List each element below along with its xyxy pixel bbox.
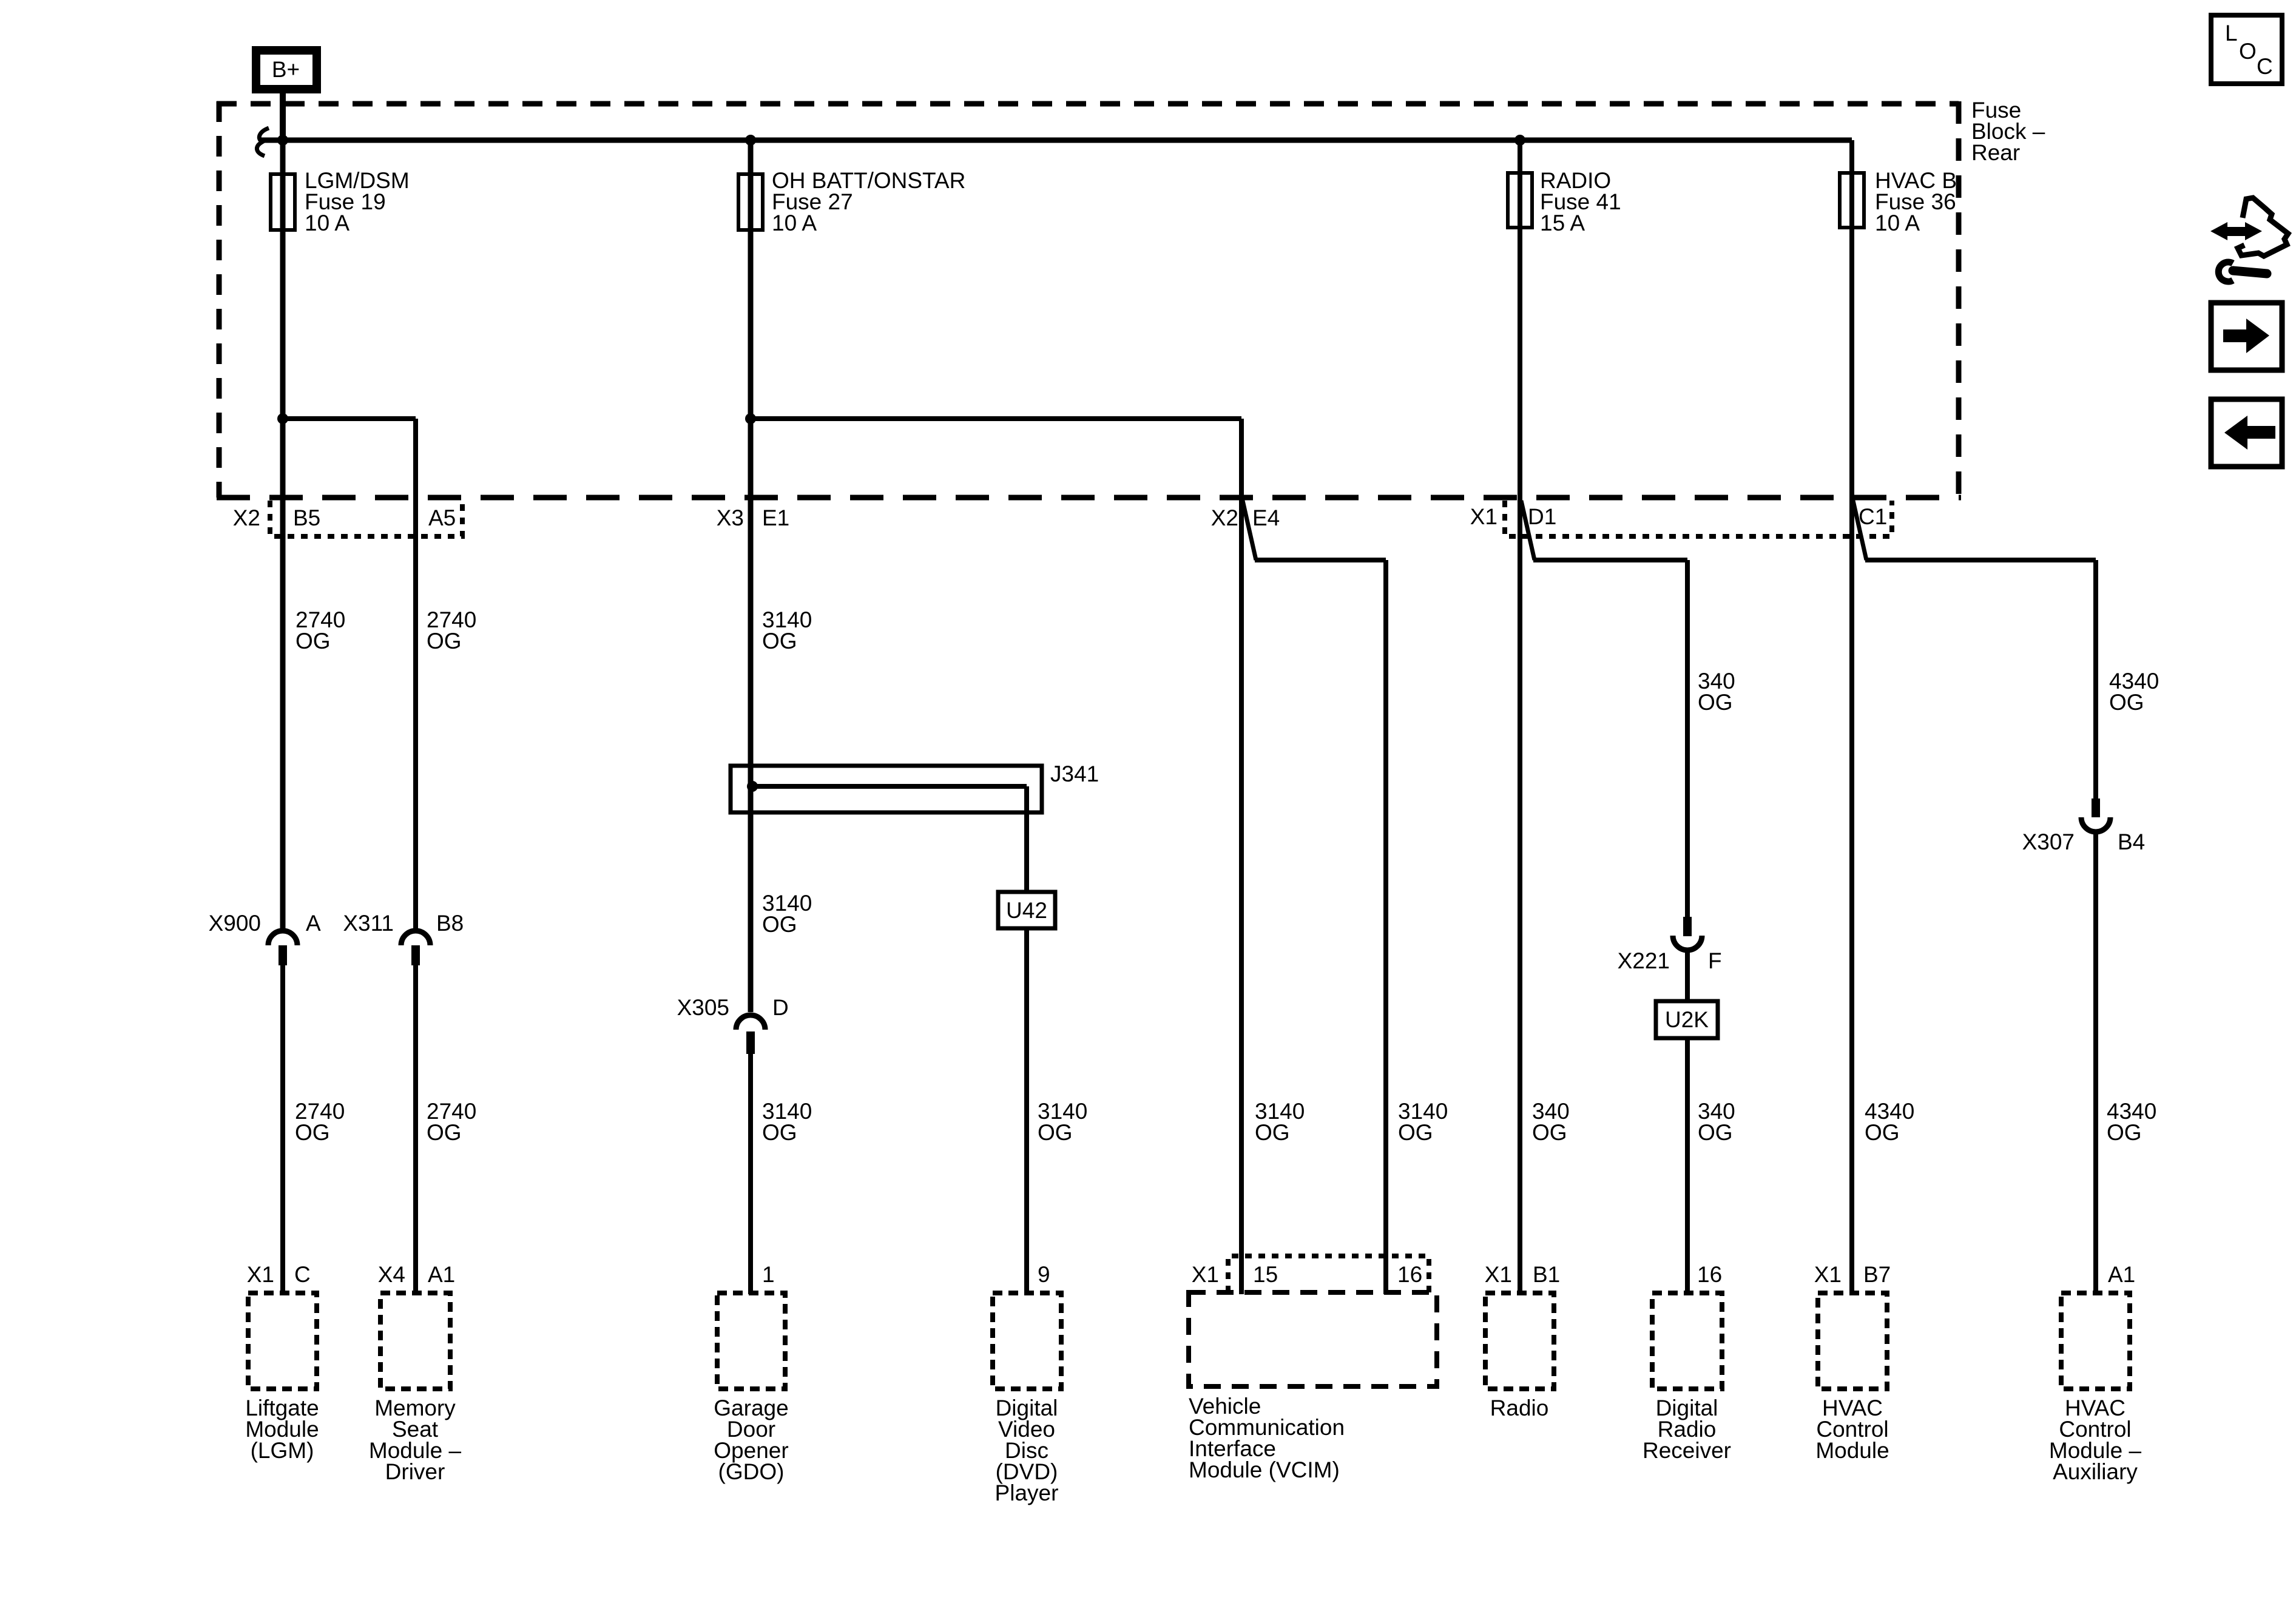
svg-text:B+: B+ <box>272 57 300 82</box>
fuse 41 RADIO <box>1508 173 1532 228</box>
connector X305 pin D <box>736 1015 765 1054</box>
svg-text:X2: X2 <box>1211 505 1238 530</box>
wire column6 hvac <box>1849 140 1854 1294</box>
wire label 340 OG drr lower <box>1698 1099 1735 1145</box>
wire label 3140 OG vcim15 <box>1255 1099 1305 1145</box>
svg-text:C: C <box>294 1262 311 1287</box>
svg-text:OG: OG <box>1532 1120 1567 1145</box>
wire C1 split slant <box>1853 501 1866 560</box>
wire column HVACaux upper <box>2093 560 2098 800</box>
VCIM pin dotted box <box>1228 1256 1429 1292</box>
splice J341 <box>731 766 1042 892</box>
svg-text:E1: E1 <box>762 505 789 530</box>
svg-text:X2: X2 <box>233 505 260 530</box>
B+ power symbol <box>252 46 321 93</box>
wire label 2740 OG c2 lower <box>427 1099 476 1145</box>
svg-text:OG: OG <box>762 629 797 653</box>
fuse block rear label <box>1971 98 2045 165</box>
connector X307 pin B4 <box>2081 798 2110 832</box>
wire E4 branch horizontal <box>1255 558 1386 562</box>
wire label 4340 OG hvac <box>1865 1099 1914 1145</box>
svg-text:A: A <box>306 911 321 936</box>
svg-text:X221: X221 <box>1618 948 1670 973</box>
svg-text:OG: OG <box>1255 1120 1290 1145</box>
wire B+ drop <box>280 92 286 140</box>
wire column aux lower <box>2093 831 2098 1294</box>
svg-text:10 A: 10 A <box>772 211 817 235</box>
previous page icon <box>2211 399 2282 467</box>
svg-text:C: C <box>2257 54 2273 79</box>
fuse 36 value label <box>1875 168 1957 235</box>
svg-text:X3: X3 <box>717 505 744 530</box>
wire label 3140 OG c3 lower <box>762 1099 812 1145</box>
wire D1 split slant <box>1521 501 1535 560</box>
diagnostic icon <box>2210 198 2288 282</box>
svg-text:X1: X1 <box>1470 504 1497 529</box>
wire branch to A5 <box>283 416 416 421</box>
svg-text:OG: OG <box>1398 1120 1433 1145</box>
svg-text:10 A: 10 A <box>305 211 349 235</box>
wire column VCIM16 <box>1383 560 1388 1294</box>
svg-text:X311: X311 <box>343 911 394 936</box>
svg-text:OG: OG <box>1865 1120 1900 1145</box>
wire column E4 <box>1239 419 1244 1294</box>
connector X900 pin A <box>268 931 297 965</box>
svg-text:Module: Module <box>1815 1438 1889 1463</box>
svg-text:X900: X900 <box>209 911 261 936</box>
svg-text:A5: A5 <box>428 505 456 530</box>
wire label 2740 OG c1 lower <box>295 1099 345 1145</box>
svg-text:Radio: Radio <box>1490 1396 1549 1420</box>
svg-text:Player: Player <box>995 1480 1059 1505</box>
svg-text:B7: B7 <box>1863 1262 1891 1287</box>
splice connector U2K <box>1656 1001 1718 1038</box>
svg-text:Receiver: Receiver <box>1643 1438 1731 1463</box>
node bus-fuse41 <box>1514 135 1525 146</box>
fuse 36 HVAC B <box>1840 173 1864 228</box>
connector X221 pin F <box>1673 917 1702 950</box>
svg-text:X1: X1 <box>1192 1262 1219 1287</box>
svg-text:OG: OG <box>427 1120 462 1145</box>
svg-text:X1: X1 <box>1485 1262 1512 1287</box>
wire label 3140 OG c3 upper <box>762 607 812 653</box>
svg-text:U2K: U2K <box>1665 1007 1709 1032</box>
wire column DRR upper <box>1685 560 1690 918</box>
node fuse27-branch <box>745 413 756 424</box>
svg-text:J341: J341 <box>1050 761 1099 786</box>
svg-text:OG: OG <box>762 1120 797 1145</box>
wire C1 branch horizontal <box>1865 558 2096 562</box>
wire X221 to U2K <box>1685 949 1690 1001</box>
splice connector U42 <box>998 892 1055 928</box>
svg-text:Auxiliary: Auxiliary <box>2053 1459 2138 1484</box>
wire label 4340 OG aux lower <box>2107 1099 2156 1145</box>
digital radio receiver box <box>1652 1293 1722 1389</box>
wire column2 lower <box>413 965 418 1294</box>
svg-text:A1: A1 <box>428 1262 455 1287</box>
fuse 27 OH BATT/ONSTAR <box>738 174 763 230</box>
radio box <box>1485 1293 1554 1389</box>
wire column1 upper <box>280 140 286 929</box>
hvac aux module box <box>2061 1293 2130 1389</box>
svg-text:Rear: Rear <box>1971 140 2020 165</box>
garage door opener box <box>717 1293 785 1389</box>
wire U2K to DRR <box>1685 1038 1690 1294</box>
svg-text:OG: OG <box>295 1120 330 1145</box>
svg-text:OG: OG <box>762 912 797 937</box>
svg-text:Driver: Driver <box>385 1459 445 1484</box>
svg-text:OG: OG <box>427 629 462 653</box>
svg-text:U42: U42 <box>1006 898 1047 923</box>
svg-text:X1: X1 <box>247 1262 274 1287</box>
fuse 19 LGM/DSM <box>271 174 295 230</box>
svg-text:B5: B5 <box>293 505 320 530</box>
svg-text:X307: X307 <box>2022 829 2075 854</box>
svg-text:A1: A1 <box>2108 1262 2135 1287</box>
fuse block rear dashed border <box>217 101 1961 498</box>
svg-text:15: 15 <box>1253 1262 1278 1287</box>
svg-text:C1: C1 <box>1859 504 1887 529</box>
svg-text:OG: OG <box>1698 1120 1733 1145</box>
vcim box <box>1189 1292 1437 1386</box>
svg-text:(GDO): (GDO) <box>718 1459 785 1484</box>
wire branch to E4 <box>751 416 1241 421</box>
svg-text:OG: OG <box>2107 1120 2142 1145</box>
svg-text:16: 16 <box>1697 1262 1722 1287</box>
wire column1 lower <box>280 965 285 1294</box>
wire label 3140 OG c3 mid <box>762 891 812 937</box>
liftgate module box <box>248 1293 317 1389</box>
connector X1 dotted box D1 C1 <box>1505 501 1892 536</box>
connector X2 dotted box B5 A5 <box>270 501 462 536</box>
svg-text:OG: OG <box>1038 1120 1073 1145</box>
connector X311 pin B8 <box>401 931 430 965</box>
wire label 2740 OG c2 upper <box>427 607 476 653</box>
svg-text:D1: D1 <box>1528 504 1556 529</box>
svg-text:1: 1 <box>762 1262 775 1287</box>
node bus-fuse19 <box>277 135 288 146</box>
fuse 27 value label <box>772 168 965 235</box>
svg-text:(LGM): (LGM) <box>251 1438 314 1463</box>
wire label 2740 OG c1 upper <box>295 607 345 653</box>
wire label 340 OG radio <box>1532 1099 1570 1145</box>
svg-text:15 A: 15 A <box>1540 211 1585 235</box>
svg-text:F: F <box>1708 948 1722 973</box>
svg-text:X305: X305 <box>677 995 729 1020</box>
svg-text:O: O <box>2239 39 2257 64</box>
wire hook at bus start <box>257 128 269 156</box>
svg-text:X4: X4 <box>378 1262 405 1287</box>
wire label 340 OG drr upper <box>1698 669 1735 715</box>
node fuse19-branch <box>277 413 288 424</box>
svg-text:B8: B8 <box>436 911 464 936</box>
svg-text:B4: B4 <box>2118 829 2145 854</box>
wire label 3140 OG dvd lower <box>1038 1099 1087 1145</box>
wire column5 radio <box>1518 140 1522 1294</box>
bus wire B+ feed <box>260 138 1852 143</box>
next page icon <box>2211 303 2282 370</box>
wire D1 branch horizontal <box>1533 558 1687 562</box>
wire E4 split slant <box>1243 501 1256 560</box>
memory seat module box <box>380 1293 450 1389</box>
wire U42 to DVD <box>1024 928 1029 1294</box>
LOC icon <box>2211 15 2282 84</box>
svg-text:10 A: 10 A <box>1875 211 1920 235</box>
fuse 19 value label <box>305 168 410 235</box>
wire label 4340 OG aux upper <box>2109 669 2159 715</box>
node bus-fuse27 <box>745 135 756 146</box>
svg-text:L: L <box>2225 21 2238 46</box>
svg-text:X1: X1 <box>1814 1262 1842 1287</box>
svg-text:E4: E4 <box>1252 505 1280 530</box>
svg-text:Module (VCIM): Module (VCIM) <box>1189 1457 1340 1482</box>
svg-text:OG: OG <box>2109 690 2144 715</box>
dvd player box <box>993 1293 1061 1389</box>
wire column3 lower <box>748 1054 753 1294</box>
svg-text:D: D <box>772 995 789 1020</box>
wire column2 upper <box>413 419 418 929</box>
svg-text:OG: OG <box>1698 690 1733 715</box>
svg-text:16: 16 <box>1397 1262 1422 1287</box>
wire label 3140 OG vcim16 <box>1398 1099 1448 1145</box>
wire column3 upper <box>748 140 754 1012</box>
fuse 41 value label <box>1540 168 1621 235</box>
svg-text:OG: OG <box>295 629 331 653</box>
svg-text:B1: B1 <box>1533 1262 1560 1287</box>
hvac control module box <box>1818 1293 1887 1389</box>
svg-text:9: 9 <box>1038 1262 1050 1287</box>
